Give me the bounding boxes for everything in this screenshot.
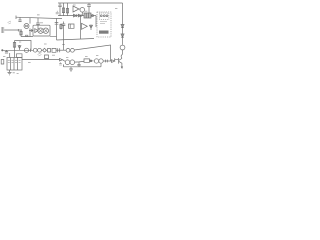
capacitor C5 [62,22,66,40]
wire v1 [56,18,58,40]
resistor box R7 [84,59,90,62]
symbol circle M1 [38,28,43,33]
transformer specks [13,72,19,73]
transistor Q4 [80,8,85,13]
box B1 [48,49,51,53]
wire long sloped [74,45,110,61]
wire chain2 [56,49,66,51]
transistor Q3 [119,58,123,68]
terminal left2 [2,50,3,51]
terminal c [106,15,108,17]
wire bc3 [103,60,111,62]
tick chain [30,49,32,52]
capacitor C11 [59,62,63,66]
dashed box T1 [97,12,111,37]
label specks [3,5,117,63]
lamp L7 [70,60,75,65]
capacitor C0 [58,3,61,16]
chain lamp L3 [38,48,42,52]
wire q1 [29,18,31,37]
op-amp U4 [69,24,75,28]
lamp L9 [94,59,98,63]
arrow sec [60,58,63,61]
wire bc [75,61,89,62]
ground 1 [8,70,12,75]
junction cross [62,44,64,46]
wire mid-left rail [2,49,33,51]
chain lamp L2 [33,48,37,52]
wire down from r6 [14,50,16,57]
diode D4 [18,45,21,50]
transformer T2 [7,58,22,71]
rail taps [64,63,102,67]
capacitor C3 [36,18,40,30]
wire A r6 to chain [15,41,32,51]
lamp L6 [65,60,70,65]
transistor Q1 [24,24,29,29]
wire drop right [95,16,97,27]
capacitor C4 [55,23,59,25]
zener Z2 [121,34,124,37]
op-amp U2 [73,6,80,12]
resistor R2 [66,3,68,16]
box under2 [17,54,23,58]
resistor R3 [20,31,22,37]
triangle in box [35,29,38,33]
label squiggle 2 [8,21,12,24]
box B2 [52,48,56,52]
lower rail [64,66,102,68]
resistor R6 [13,41,15,51]
node A [92,15,94,17]
lamp L5 [71,48,75,52]
capacitor C2 [18,17,21,21]
meter M3 [24,48,28,52]
lamp L4 [66,48,70,52]
jog to lamps [63,60,66,62]
inner dashed box [99,13,109,19]
capacitor C1 [87,3,91,13]
ground 2 [69,67,73,71]
wire mid row [58,15,96,17]
box inner marks [100,22,107,24]
drop from bus [63,40,65,51]
label squiggle [38,53,42,57]
zener Z1 [121,25,124,28]
capacitor C10 [56,11,61,16]
resistor R4 [60,24,62,30]
terminal a [100,15,102,17]
arrow into box [29,29,33,31]
diode D5 [112,58,119,62]
ring node [90,60,92,62]
lamp L10 [99,59,103,63]
component left small [1,60,4,65]
diode D3 [90,25,93,31]
wire drop u5 [80,16,82,39]
varistor RV1 [43,48,47,52]
ticks chain2 [58,48,60,52]
op-amp U5 [82,23,88,29]
relay K1 [84,13,91,18]
wire bc2 [90,60,94,62]
coil L1 [99,31,109,34]
resistor R1 [62,3,64,16]
diode D1 [74,14,77,17]
transistor Q2 [120,45,125,50]
junction drop cap [77,62,80,67]
wire drop u2 [81,12,83,16]
wire input [4,29,22,31]
wire bus mid [57,39,95,41]
terminal left [15,16,17,20]
wire chain [41,49,47,51]
comp on wire [26,35,28,36]
diode D2 [78,14,81,17]
box optocoupler U3 [33,25,50,36]
terminal b [103,15,105,17]
wire right rail [122,3,124,45]
wire top rail [58,2,123,4]
wire left top rail [16,17,62,18]
capacitor C6 [5,50,10,57]
capacitor C8 box [45,55,49,59]
wire under box [21,35,57,37]
tick j [17,29,19,32]
symbol circle M2 [43,28,48,33]
connector J1 [2,27,4,33]
junction ticks [106,60,108,63]
q2 to q3 [120,56,123,59]
wire sec [22,59,60,61]
